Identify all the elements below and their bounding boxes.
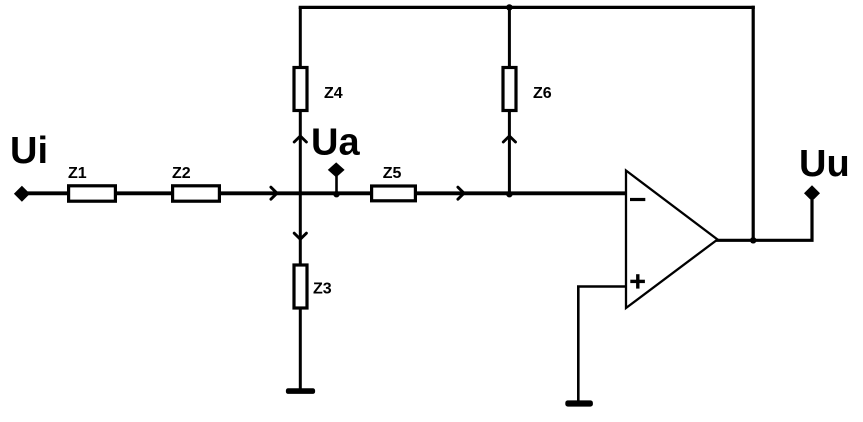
wire Z3 to ground — [299, 308, 302, 389]
wire node A down to Z3 — [299, 193, 302, 265]
svg-text:Z4: Z4 — [324, 85, 343, 102]
svg-text:Ua: Ua — [311, 122, 360, 164]
wire Z5 to op-amp — [417, 191, 626, 195]
op-amp U1 — [626, 171, 718, 309]
svg-text:Z2: Z2 — [172, 165, 191, 182]
current arrow into node A — [271, 187, 277, 199]
svg-text:Z1: Z1 — [68, 165, 87, 182]
feedback wire down to output — [752, 6, 755, 241]
resistor Z1 — [68, 165, 115, 201]
node Ui — [10, 130, 48, 202]
wire Z4 to top rail — [299, 7, 302, 67]
node Ua — [311, 122, 360, 198]
svg-text:Ui: Ui — [10, 130, 48, 172]
output wire — [716, 200, 812, 240]
ground at op-amp + input — [565, 400, 593, 406]
resistor Z4 — [294, 68, 343, 111]
wire op-amp + input to ground — [578, 287, 626, 402]
resistor Z5 — [372, 165, 416, 201]
svg-text:Z6: Z6 — [533, 85, 552, 102]
svg-text:Uu: Uu — [799, 143, 850, 185]
current arrow into node B — [458, 187, 464, 199]
resistor Z2 — [172, 165, 219, 201]
current arrow up Z4 branch — [294, 136, 306, 142]
current arrow down Z3 branch — [294, 233, 306, 239]
node B junction dot — [506, 191, 512, 197]
wire node A up to Z4 — [299, 111, 302, 193]
resistor Z6 — [503, 68, 552, 111]
junction dot output / feedback — [750, 237, 756, 243]
svg-text:Z5: Z5 — [383, 165, 402, 182]
wire node B up to Z6 — [508, 111, 511, 193]
wire Z1 to Z2 — [117, 191, 172, 195]
resistor Z3 — [294, 265, 332, 308]
wire Z6 to top rail — [508, 7, 511, 67]
wire Ui to Z1 — [25, 191, 68, 195]
node Uu — [799, 143, 850, 201]
wire Z2 to node A — [221, 191, 370, 195]
current arrow up Z6 branch — [503, 136, 515, 142]
top feedback rail — [300, 7, 755, 9]
junction dot top rail / Z6 — [506, 4, 512, 10]
ground under Z3 — [286, 388, 315, 394]
svg-text:Z3: Z3 — [313, 281, 332, 298]
